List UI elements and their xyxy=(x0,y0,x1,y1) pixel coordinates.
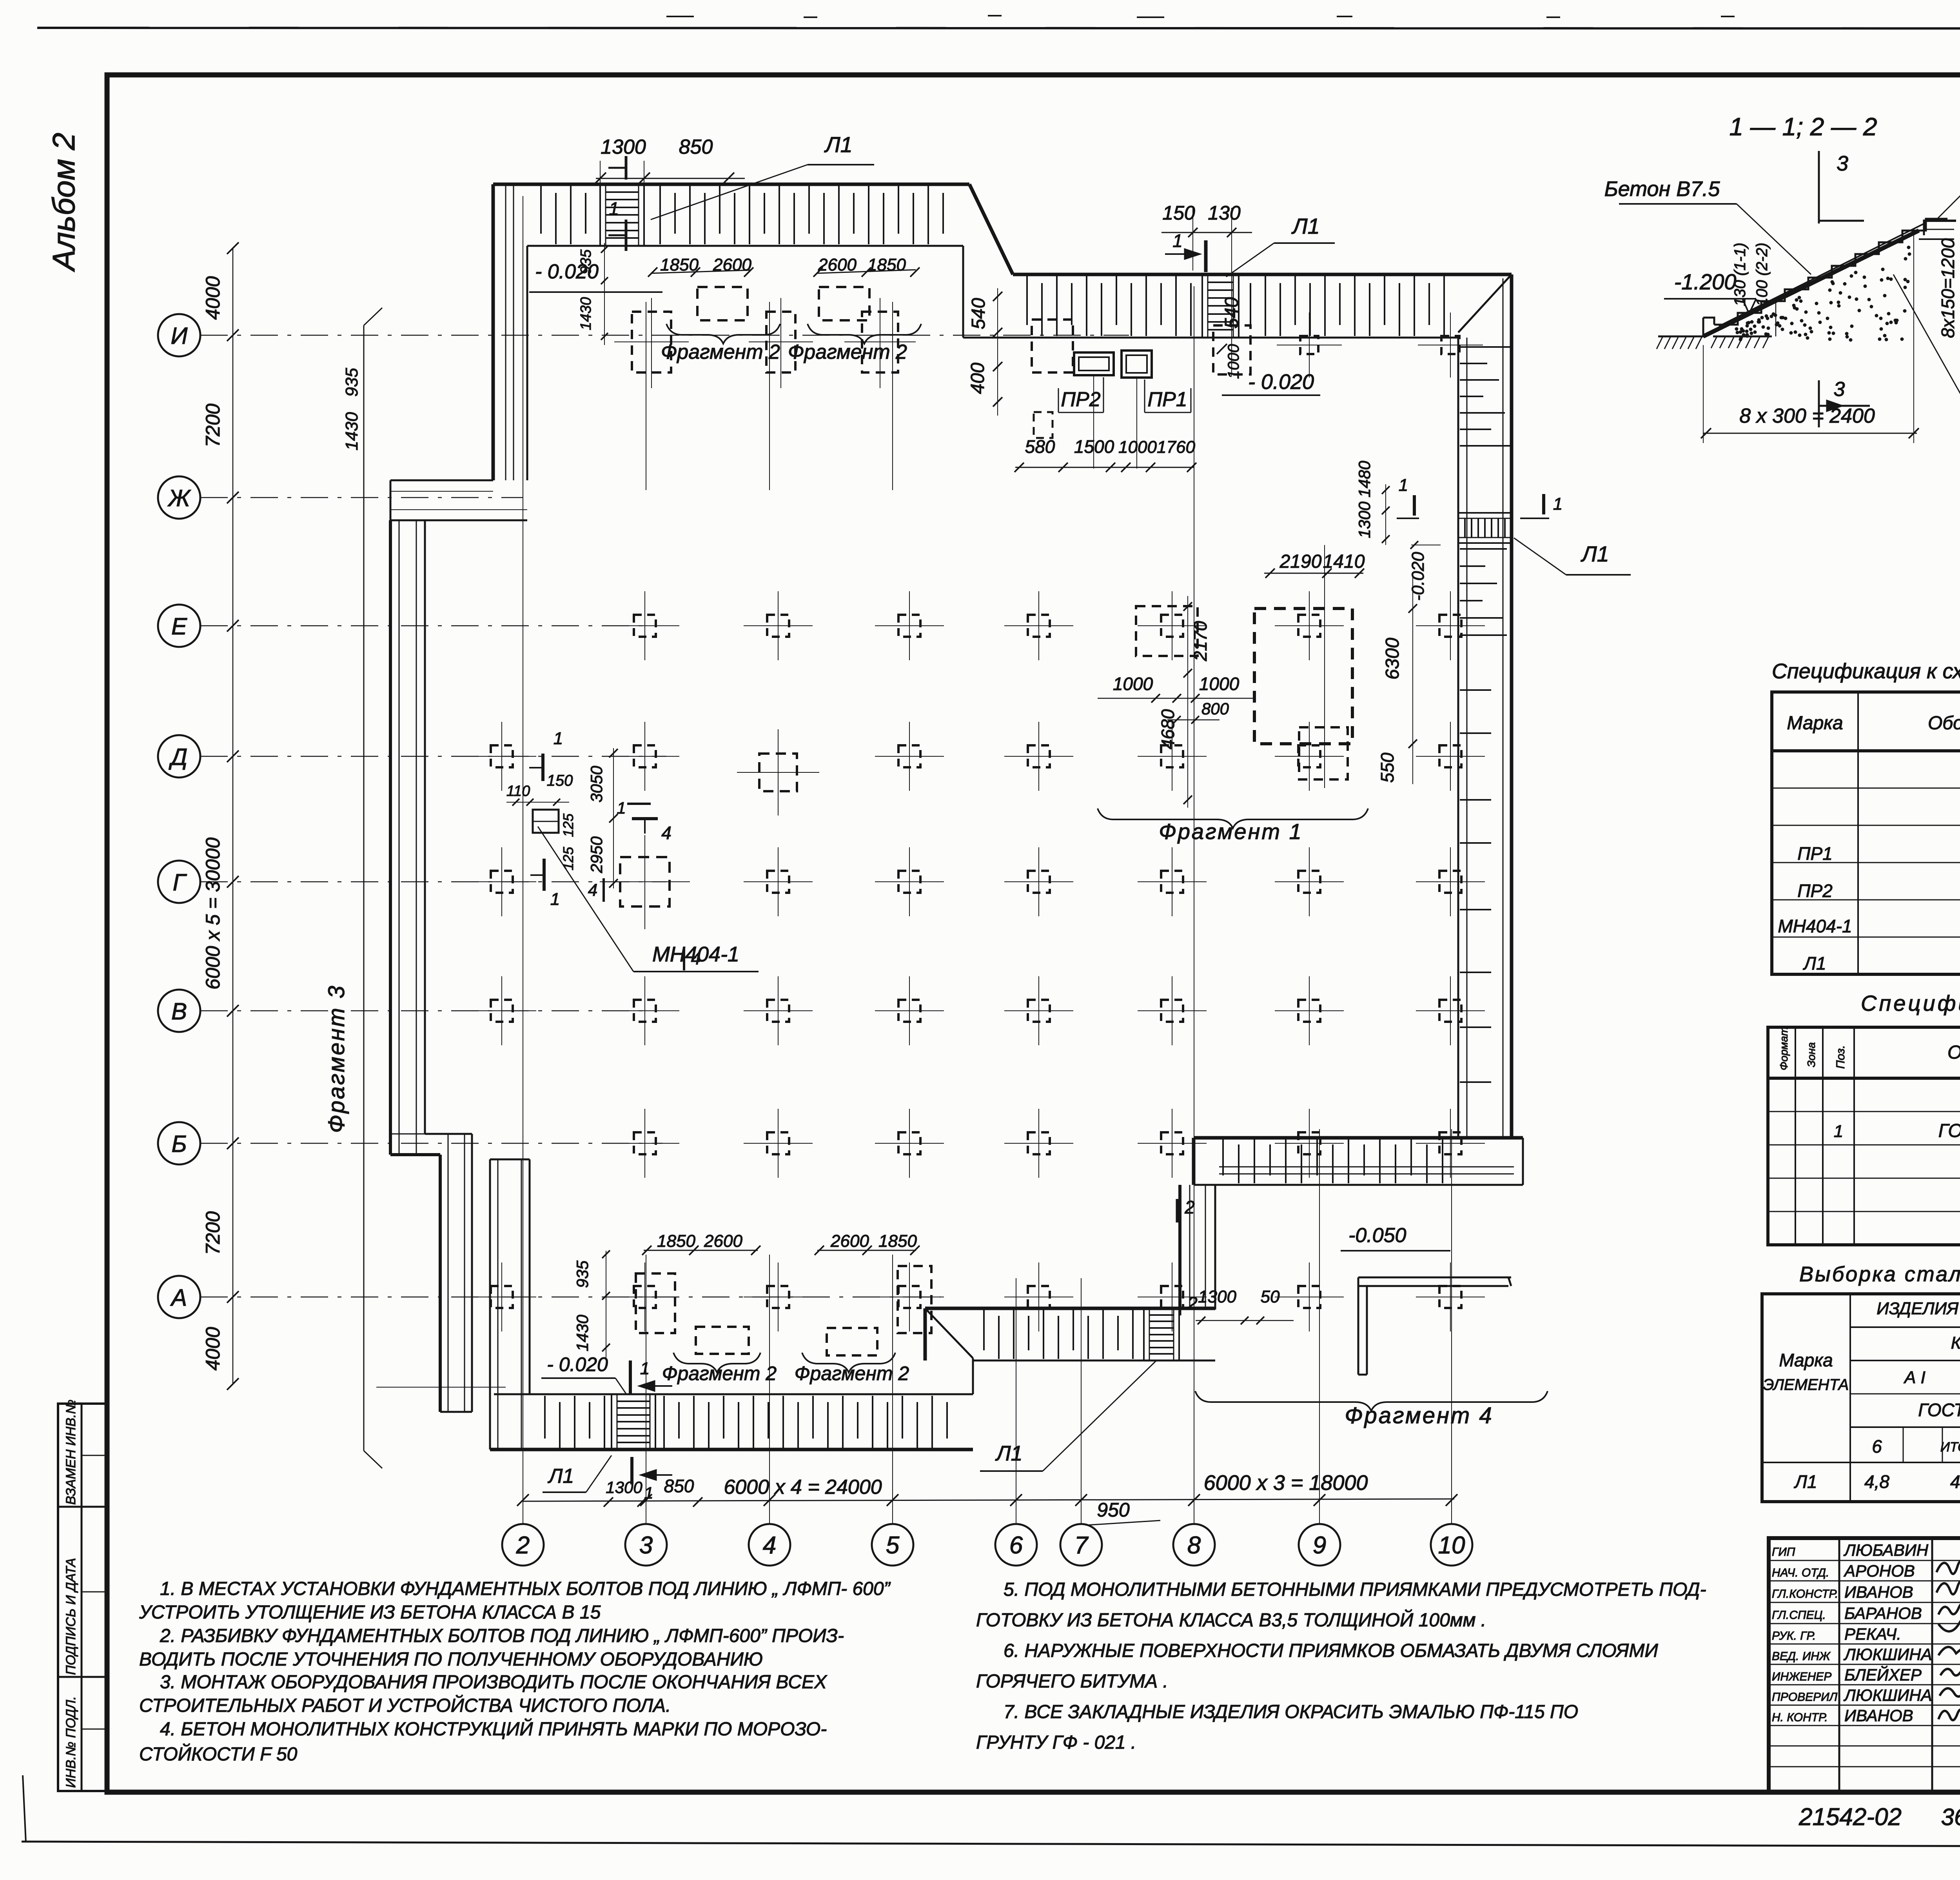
svg-text:540: 540 xyxy=(968,298,989,329)
axis line 4 xyxy=(769,302,770,490)
svg-text:6000 х 4 = 24000: 6000 х 4 = 24000 xyxy=(724,1476,882,1499)
svg-text:АРОНОВ: АРОНОВ xyxy=(1843,1562,1915,1580)
svg-text:6: 6 xyxy=(1872,1436,1882,1457)
svg-text:Формат: Формат xyxy=(1778,1027,1790,1070)
axis line Ж xyxy=(200,497,523,498)
svg-text:7: 7 xyxy=(1074,1532,1089,1559)
section mark 1 top-left stair xyxy=(625,156,628,180)
svg-text:Л1: Л1 xyxy=(824,132,853,157)
svg-text:РУК. ГР.: РУК. ГР. xyxy=(1772,1629,1816,1642)
svg-text:В: В xyxy=(171,998,187,1024)
svg-text:800: 800 xyxy=(1201,699,1229,718)
svg-text:1: 1 xyxy=(1834,1122,1843,1141)
axis circle 3 xyxy=(625,1524,667,1566)
svg-text:3: 3 xyxy=(1837,152,1848,175)
svg-text:2: 2 xyxy=(1187,1293,1198,1313)
axis circle Г xyxy=(158,861,200,903)
axis circle 9 xyxy=(1299,1524,1340,1566)
section mark 1 right of right wall xyxy=(1542,494,1545,514)
pit PR2 xyxy=(1074,352,1114,375)
svg-text:ГРУНТУ ГФ - 021 .: ГРУНТУ ГФ - 021 . xyxy=(976,1732,1136,1753)
svg-text:ИТОГО: ИТОГО xyxy=(1940,1440,1960,1455)
svg-text:1300: 1300 xyxy=(601,136,646,158)
svg-text:550: 550 xyxy=(1377,752,1397,783)
svg-text:ГОРЯЧЕГО БИТУМА .: ГОРЯЧЕГО БИТУМА . xyxy=(976,1671,1168,1692)
svg-text:ЭЛЕМЕНТА: ЭЛЕМЕНТА xyxy=(1763,1376,1849,1393)
section mark 1 left of right wall xyxy=(1413,495,1416,516)
axis circle 4 xyxy=(749,1524,790,1566)
svg-text:950: 950 xyxy=(1097,1499,1130,1521)
svg-text:540: 540 xyxy=(1221,297,1242,329)
sheet bottom-left crease line xyxy=(23,1775,26,1842)
svg-text:Л1: Л1 xyxy=(548,1465,574,1488)
svg-text:Альбом 2: Альбом 2 xyxy=(46,133,81,272)
lower west wall W6a xyxy=(439,1155,442,1412)
pit PR1 xyxy=(1122,351,1152,378)
medium dashed rects fragment2 bottom xyxy=(636,1273,675,1333)
svg-text:-0.050: -0.050 xyxy=(1348,1224,1406,1247)
svg-text:4: 4 xyxy=(763,1532,776,1559)
svg-text:Фрагмент 2: Фрагмент 2 xyxy=(661,341,780,363)
svg-text:130 (1-1): 130 (1-1) xyxy=(1731,243,1749,306)
svg-text:150: 150 xyxy=(547,772,573,789)
section mark 1 stair band C xyxy=(1204,240,1208,272)
svg-text:Обозначение: Обозначение xyxy=(1947,1042,1960,1063)
svg-text:ГОСТ 8478 - 81: ГОСТ 8478 - 81 xyxy=(1938,1121,1960,1141)
svg-text:ВЕД. ИНЖ: ВЕД. ИНЖ xyxy=(1772,1650,1831,1663)
svg-text:КЛАСС: КЛАСС xyxy=(1951,1333,1960,1353)
grid of dashed column footings xyxy=(634,615,656,637)
fragment 4 label xyxy=(1195,1391,1548,1411)
svg-text:1410: 1410 xyxy=(1323,551,1365,572)
section mark 3 upper xyxy=(1818,151,1820,223)
svg-text:ЛЮБАВИН: ЛЮБАВИН xyxy=(1843,1541,1929,1559)
axis line 3 xyxy=(646,302,646,490)
fragment 2 labels bottom xyxy=(673,1353,760,1372)
floor lines right of landing xyxy=(1927,220,1956,222)
axis circle 8 xyxy=(1173,1524,1215,1566)
axis circle Б xyxy=(158,1122,200,1164)
right wall W9 xyxy=(1510,274,1514,1138)
axis circle В xyxy=(158,990,200,1032)
title block frame xyxy=(1769,1538,1960,1792)
svg-text:9: 9 xyxy=(1313,1532,1326,1559)
axis line 9 xyxy=(1319,1129,1320,1524)
svg-text:6. НАРУЖНЫЕ ПОВЕРХНОСТИ: 6. НАРУЖНЫЕ ПОВЕРХНОСТИ ПРИЯМКОВ ОБМАЗАТ… xyxy=(1004,1640,1658,1661)
svg-text:Бетон В7.5: Бетон В7.5 xyxy=(1604,177,1720,201)
svg-text:1430: 1430 xyxy=(573,1315,592,1351)
svg-text:Л1: Л1 xyxy=(1581,541,1609,566)
ground line right of stair xyxy=(1919,238,1954,240)
svg-text:МН404-1: МН404-1 xyxy=(1778,916,1852,936)
svg-text:ГИП: ГИП xyxy=(1772,1546,1795,1558)
west wall W4 xyxy=(389,520,392,1155)
svg-text:400: 400 xyxy=(967,363,988,394)
svg-text:8: 8 xyxy=(1187,1532,1201,1559)
svg-text:А I: А I xyxy=(1903,1368,1926,1387)
svg-text:ИВАНОВ: ИВАНОВ xyxy=(1844,1706,1913,1725)
axis circle 6 xyxy=(995,1524,1037,1566)
svg-text:Фрагмент 2: Фрагмент 2 xyxy=(788,341,907,363)
axis circle А xyxy=(158,1276,200,1318)
svg-text:1: 1 xyxy=(609,198,619,219)
svg-text:ИНВ.№ ПОДЛ.: ИНВ.№ ПОДЛ. xyxy=(64,1696,78,1788)
fragment 3 bracket line xyxy=(363,325,365,1451)
svg-text:1300: 1300 xyxy=(1355,501,1374,538)
svg-text:Выборка стали на элемент,: Выборка стали на элемент, кг. xyxy=(1799,1262,1960,1286)
svg-text:Г: Г xyxy=(173,869,187,895)
svg-text:4000: 4000 xyxy=(202,1327,224,1370)
svg-text:ПОДПИСЬ И ДАТА: ПОДПИСЬ И ДАТА xyxy=(64,1558,78,1675)
svg-text:ГОТОВКУ ИЗ БЕТОНА КЛАССА: ГОТОВКУ ИЗ БЕТОНА КЛАССА В3,5 ТОЛЩИНОЙ 1… xyxy=(976,1609,1486,1631)
svg-text:850: 850 xyxy=(664,1476,694,1496)
svg-text:ПР2: ПР2 xyxy=(1061,388,1100,411)
svg-text:Л1: Л1 xyxy=(1291,214,1320,238)
svg-text:1: 1 xyxy=(1553,494,1563,514)
svg-text:Л1: Л1 xyxy=(1793,1471,1817,1492)
svg-text:4: 4 xyxy=(661,823,671,843)
svg-text:2600: 2600 xyxy=(830,1232,869,1251)
svg-text:1: 1 xyxy=(1399,476,1408,495)
svg-text:8х150=1200: 8х150=1200 xyxy=(1938,238,1958,338)
svg-text:2190: 2190 xyxy=(1279,551,1322,572)
axis circle И xyxy=(158,314,200,356)
wall connector J at axis Zh xyxy=(390,480,493,481)
svg-text:1. В МЕСТАХ УСТАНОВКИ ФУНДАМ: 1. В МЕСТАХ УСТАНОВКИ ФУНДАМЕНТНЫХ БОЛТО… xyxy=(160,1578,891,1599)
spec table 1 grid xyxy=(1772,692,1960,974)
svg-text:ПРОВЕРИЛ: ПРОВЕРИЛ xyxy=(1772,1691,1838,1704)
svg-text:580: 580 xyxy=(1025,436,1055,457)
spec table 2 grid xyxy=(1768,1027,1960,1245)
svg-text:1000: 1000 xyxy=(1199,674,1240,694)
svg-text:935: 935 xyxy=(342,368,361,397)
svg-text:1: 1 xyxy=(550,890,560,909)
svg-text:1000: 1000 xyxy=(1118,438,1157,457)
svg-text:ВОДИТЬ ПОСЛЕ УТОЧНЕНИЯ ПО: ВОДИТЬ ПОСЛЕ УТОЧНЕНИЯ ПО ПОЛУЧЕННОМУ ОБ… xyxy=(139,1649,763,1670)
section cut marks 1 at MN404 xyxy=(541,754,544,781)
axis line 5 xyxy=(892,302,893,490)
column footings row I top xyxy=(632,312,671,372)
big dashed rectangle fragment1 xyxy=(1254,609,1352,744)
left inventory strip xyxy=(58,1404,107,1791)
ground hatch at -1.200 xyxy=(1713,336,1772,338)
section mark 4 pair xyxy=(627,803,651,805)
svg-text:1430: 1430 xyxy=(578,297,594,331)
stair L1 in band F xyxy=(1143,1308,1145,1361)
axis line 7 xyxy=(1081,1278,1082,1524)
svg-text:БАРАНОВ: БАРАНОВ xyxy=(1844,1604,1922,1622)
svg-text:5. ПОД МОНОЛИТНЫМИ БЕТОН: 5. ПОД МОНОЛИТНЫМИ БЕТОННЫМИ ПРИЯМКАМИ П… xyxy=(1004,1579,1706,1600)
svg-text:1480: 1480 xyxy=(1355,461,1374,498)
left dimension chain xyxy=(232,248,234,1384)
svg-text:НАЧ. ОТД.: НАЧ. ОТД. xyxy=(1772,1566,1829,1579)
svg-text:Спецификация к схеме расположе: Спецификация к схеме расположения элемен… xyxy=(1772,659,1960,683)
lower west wall W6b xyxy=(489,1159,491,1450)
svg-text:1850: 1850 xyxy=(657,1232,695,1251)
MN404-1 embedded item in plan xyxy=(533,810,559,833)
stair L1 in band G xyxy=(611,1394,612,1450)
svg-text:УСТРОИТЬ УТОЛЩЕНИЕ ИЗ БЕТОН: УСТРОИТЬ УТОЛЩЕНИЕ ИЗ БЕТОНА КЛАССА В 15 xyxy=(139,1602,601,1623)
axis line И xyxy=(200,335,1129,336)
section mark 2 pair band F stair xyxy=(1176,1199,1179,1222)
stair L1 on right wall xyxy=(1458,512,1512,514)
svg-text:ГЛ.КОНСТР.: ГЛ.КОНСТР. xyxy=(1772,1588,1838,1600)
svg-text:3. МОНТАЖ ОБОРУДОВАНИЯ ПРО: 3. МОНТАЖ ОБОРУДОВАНИЯ ПРОИЗВОДИТЬ ПОСЛЕ… xyxy=(160,1672,828,1693)
svg-text:А: А xyxy=(170,1284,187,1311)
section mark 4 pair xyxy=(632,817,658,820)
svg-text:ИНЖЕНЕР: ИНЖЕНЕР xyxy=(1772,1670,1831,1683)
axis circle Ж xyxy=(158,476,200,519)
svg-text:4. БЕТОН МОНОЛИТНЫХ КОНС: 4. БЕТОН МОНОЛИТНЫХ КОНСТРУКЦИЙ ПРИНЯТЬ … xyxy=(160,1718,827,1740)
svg-text:- 0.020: - 0.020 xyxy=(547,1353,608,1375)
stair ground line xyxy=(1658,336,1706,338)
wall band A top-left horizontal xyxy=(493,183,969,186)
fragment 2 labels top xyxy=(666,324,780,343)
axis line Г xyxy=(200,881,666,883)
svg-text:125: 125 xyxy=(560,846,576,870)
bottom dimension line xyxy=(523,1499,1454,1501)
fragment 4 L-shaped element xyxy=(1358,1277,1511,1279)
stair slab underside xyxy=(1703,231,1919,336)
svg-text:1500: 1500 xyxy=(1074,436,1114,457)
axis line В xyxy=(200,1010,649,1012)
stair slab top edge xyxy=(1719,222,1927,326)
axis line Е xyxy=(200,625,651,627)
svg-text:8 х 300 = 2400: 8 х 300 = 2400 xyxy=(1739,405,1875,427)
wall band G bottom-left horizontal xyxy=(494,1393,973,1395)
soil label leader xyxy=(1893,274,1960,400)
svg-text:Марка: Марка xyxy=(1787,713,1843,734)
svg-text:4: 4 xyxy=(588,881,597,900)
svg-text:6000 х 5 = 30000: 6000 х 5 = 30000 xyxy=(202,837,224,990)
section mark 1 above stair S2 xyxy=(629,1361,632,1394)
wall band F bottom-right lower xyxy=(925,1307,1215,1310)
column footings row A xyxy=(491,1286,513,1308)
stair L1 in band A xyxy=(599,184,601,246)
svg-text:100 (2-2): 100 (2-2) xyxy=(1753,243,1771,306)
svg-text:-0.020: -0.020 xyxy=(1408,552,1428,601)
axis circle 5 xyxy=(872,1524,913,1566)
fragment 1 label xyxy=(1098,808,1368,828)
svg-text:Обозначение: Обозначение xyxy=(1928,713,1960,734)
step wall E xyxy=(1178,1185,1181,1308)
svg-text:ПР1: ПР1 xyxy=(1147,388,1187,411)
title block left rows xyxy=(1769,1560,1960,1561)
svg-text:Марка: Марка xyxy=(1779,1350,1833,1370)
svg-text:150: 150 xyxy=(1162,202,1195,224)
jog at axis B xyxy=(390,1133,425,1135)
axis circle Е xyxy=(158,605,200,647)
svg-text:4000: 4000 xyxy=(202,276,224,320)
svg-text:Б: Б xyxy=(171,1131,187,1157)
svg-text:6000 х 3 = 18000: 6000 х 3 = 18000 xyxy=(1204,1471,1368,1495)
compacted soil dots xyxy=(1792,304,1796,307)
section mark 1 below stair S2 xyxy=(630,1457,633,1484)
svg-text:1430: 1430 xyxy=(342,412,361,450)
svg-text:ИВАНОВ: ИВАНОВ xyxy=(1844,1583,1913,1601)
svg-text:- 0.020: - 0.020 xyxy=(1248,370,1314,394)
svg-text:ЛЮКШИНА: ЛЮКШИНА xyxy=(1843,1686,1932,1704)
axis line Д xyxy=(200,756,666,757)
svg-text:ВЗАМЕН ИНВ.№: ВЗАМЕН ИНВ.№ xyxy=(64,1400,78,1505)
svg-text:110: 110 xyxy=(506,783,530,799)
signatures squiggles xyxy=(1936,1558,1960,1574)
axis line 2 xyxy=(523,196,523,1524)
svg-text:Поз.: Поз. xyxy=(1834,1045,1847,1069)
svg-text:Спецификация к монолитной: Спецификация к монолитной лестнице xyxy=(1861,991,1960,1015)
svg-text:Ж: Ж xyxy=(167,485,191,511)
svg-text:1: 1 xyxy=(644,1484,653,1502)
svg-text:ЛЮКШИНА: ЛЮКШИНА xyxy=(1843,1645,1932,1664)
svg-text:СТРОИТЕЛЬНЫХ РАБОТ И УСТРО: СТРОИТЕЛЬНЫХ РАБОТ И УСТРОЙСТВА ЧИСТОГО … xyxy=(139,1695,671,1716)
axis line Б xyxy=(200,1143,662,1144)
axis circle 7 xyxy=(1060,1524,1102,1566)
svg-text:-1.200: -1.200 xyxy=(1674,269,1737,294)
medium dashed rect near axis E xyxy=(1136,606,1198,656)
svg-text:2. РАЗБИВКУ ФУНДАМЕНТНЫХ БОЛ: 2. РАЗБИВКУ ФУНДАМЕНТНЫХ БОЛТОВ ПОД ЛИНИ… xyxy=(160,1626,844,1646)
svg-text:4,8: 4,8 xyxy=(1950,1471,1960,1492)
axis line А xyxy=(200,1297,941,1298)
svg-text:Фрагмент 2: Фрагмент 2 xyxy=(662,1362,777,1384)
svg-text:935: 935 xyxy=(573,1260,592,1288)
svg-text:2: 2 xyxy=(1184,1197,1195,1217)
svg-text:50: 50 xyxy=(1261,1287,1280,1306)
svg-text:3050: 3050 xyxy=(587,766,606,803)
extra dashed footings near PR xyxy=(1032,320,1073,372)
svg-text:Д: Д xyxy=(169,744,187,770)
svg-text:1 — 1; 2 — 2: 1 — 1; 2 — 2 xyxy=(1729,113,1877,141)
svg-text:ПР2: ПР2 xyxy=(1797,881,1833,901)
svg-text:36: 36 xyxy=(1941,1804,1960,1830)
svg-text:2: 2 xyxy=(516,1532,530,1559)
svg-text:4680: 4680 xyxy=(1158,709,1178,749)
svg-text:21542-02: 21542-02 xyxy=(1798,1804,1902,1831)
stair section steps xyxy=(1703,318,1714,325)
svg-text:Фрагмент 2: Фрагмент 2 xyxy=(795,1362,909,1384)
svg-text:И: И xyxy=(171,323,188,349)
wall band W2 left vertical upper xyxy=(492,184,495,480)
svg-text:1300: 1300 xyxy=(606,1478,642,1497)
column footings near band C xyxy=(1300,336,1318,354)
medium dashed rects fragment2 top xyxy=(697,287,748,320)
svg-text:1850: 1850 xyxy=(878,1232,917,1251)
svg-text:Л1: Л1 xyxy=(1802,953,1826,974)
svg-text:5: 5 xyxy=(886,1532,900,1559)
svg-text:1760: 1760 xyxy=(1157,438,1195,457)
svg-text:1: 1 xyxy=(617,799,626,817)
wall band D south-east xyxy=(1194,1136,1523,1140)
svg-text:125: 125 xyxy=(560,813,576,837)
axis line 6 xyxy=(1016,1278,1016,1524)
axis line 10 xyxy=(1451,1129,1452,1524)
axis circle 2 xyxy=(502,1524,544,1566)
svg-text:6300: 6300 xyxy=(1382,638,1403,679)
section mark 3 lower xyxy=(1818,380,1820,427)
svg-text:4,8: 4,8 xyxy=(1864,1471,1889,1492)
svg-text:2950: 2950 xyxy=(587,836,606,874)
svg-text:935: 935 xyxy=(578,249,594,274)
svg-text:БЛЕЙХЕР: БЛЕЙХЕР xyxy=(1844,1665,1922,1684)
svg-text:ГОСТ 5781 -82: ГОСТ 5781 -82 xyxy=(1918,1400,1960,1420)
svg-text:4: 4 xyxy=(691,949,701,968)
svg-text:6: 6 xyxy=(1009,1532,1023,1559)
svg-text:7. ВСЕ ЗАКЛАДНЫЕ ИЗДЕЛИЯ: 7. ВСЕ ЗАКЛАДНЫЕ ИЗДЕЛИЯ ОКРАСИТЬ ЭМАЛЬЮ… xyxy=(1004,1702,1578,1722)
svg-text:Н. КОНТР.: Н. КОНТР. xyxy=(1772,1711,1828,1724)
svg-text:СТОЙКОСТИ F 50: СТОЙКОСТИ F 50 xyxy=(139,1743,298,1765)
svg-text:7200: 7200 xyxy=(202,1211,224,1255)
axis line 8 xyxy=(1194,286,1194,1524)
axis circle Д xyxy=(158,735,200,777)
svg-text:ИЗДЕЛИЯ АРМАТУРНЫЕ: ИЗДЕЛИЯ АРМАТУРНЫЕ xyxy=(1877,1299,1960,1318)
big column footings xyxy=(759,754,797,791)
sheet top edge line xyxy=(37,28,1960,29)
svg-text:Фрагмент 3: Фрагмент 3 xyxy=(324,984,349,1133)
svg-text:ГЛ.СПЕЦ.: ГЛ.СПЕЦ. xyxy=(1772,1609,1826,1622)
svg-text:ПР1: ПР1 xyxy=(1797,843,1833,864)
svg-text:1000: 1000 xyxy=(1113,674,1153,694)
svg-text:1: 1 xyxy=(1172,231,1183,251)
sheet bottom edge line xyxy=(22,1842,1960,1847)
axis circle 10 xyxy=(1431,1524,1472,1566)
svg-text:Фрагмент 4: Фрагмент 4 xyxy=(1345,1403,1493,1428)
svg-text:1: 1 xyxy=(554,729,563,748)
svg-text:1300: 1300 xyxy=(1198,1287,1236,1306)
svg-text:3: 3 xyxy=(1834,378,1845,401)
stair L1 in band C xyxy=(1201,274,1203,338)
svg-text:Е: Е xyxy=(171,613,187,639)
svg-text:130: 130 xyxy=(1208,202,1241,224)
svg-text:2600: 2600 xyxy=(704,1232,742,1251)
svg-text:Фрагмент 1: Фрагмент 1 xyxy=(1159,819,1303,844)
svg-text:Л1: Л1 xyxy=(995,1442,1022,1465)
svg-text:Зона: Зона xyxy=(1805,1042,1817,1067)
svg-text:850: 850 xyxy=(679,136,713,158)
wall band C top-right horizontal xyxy=(1013,273,1512,276)
svg-text:10: 10 xyxy=(1438,1532,1465,1559)
svg-text:7200: 7200 xyxy=(202,403,224,447)
svg-text:1: 1 xyxy=(640,1359,650,1378)
steel table grid xyxy=(1762,1294,1960,1502)
svg-text:РЕКАЧ.: РЕКАЧ. xyxy=(1844,1625,1901,1643)
svg-text:3: 3 xyxy=(639,1532,653,1559)
